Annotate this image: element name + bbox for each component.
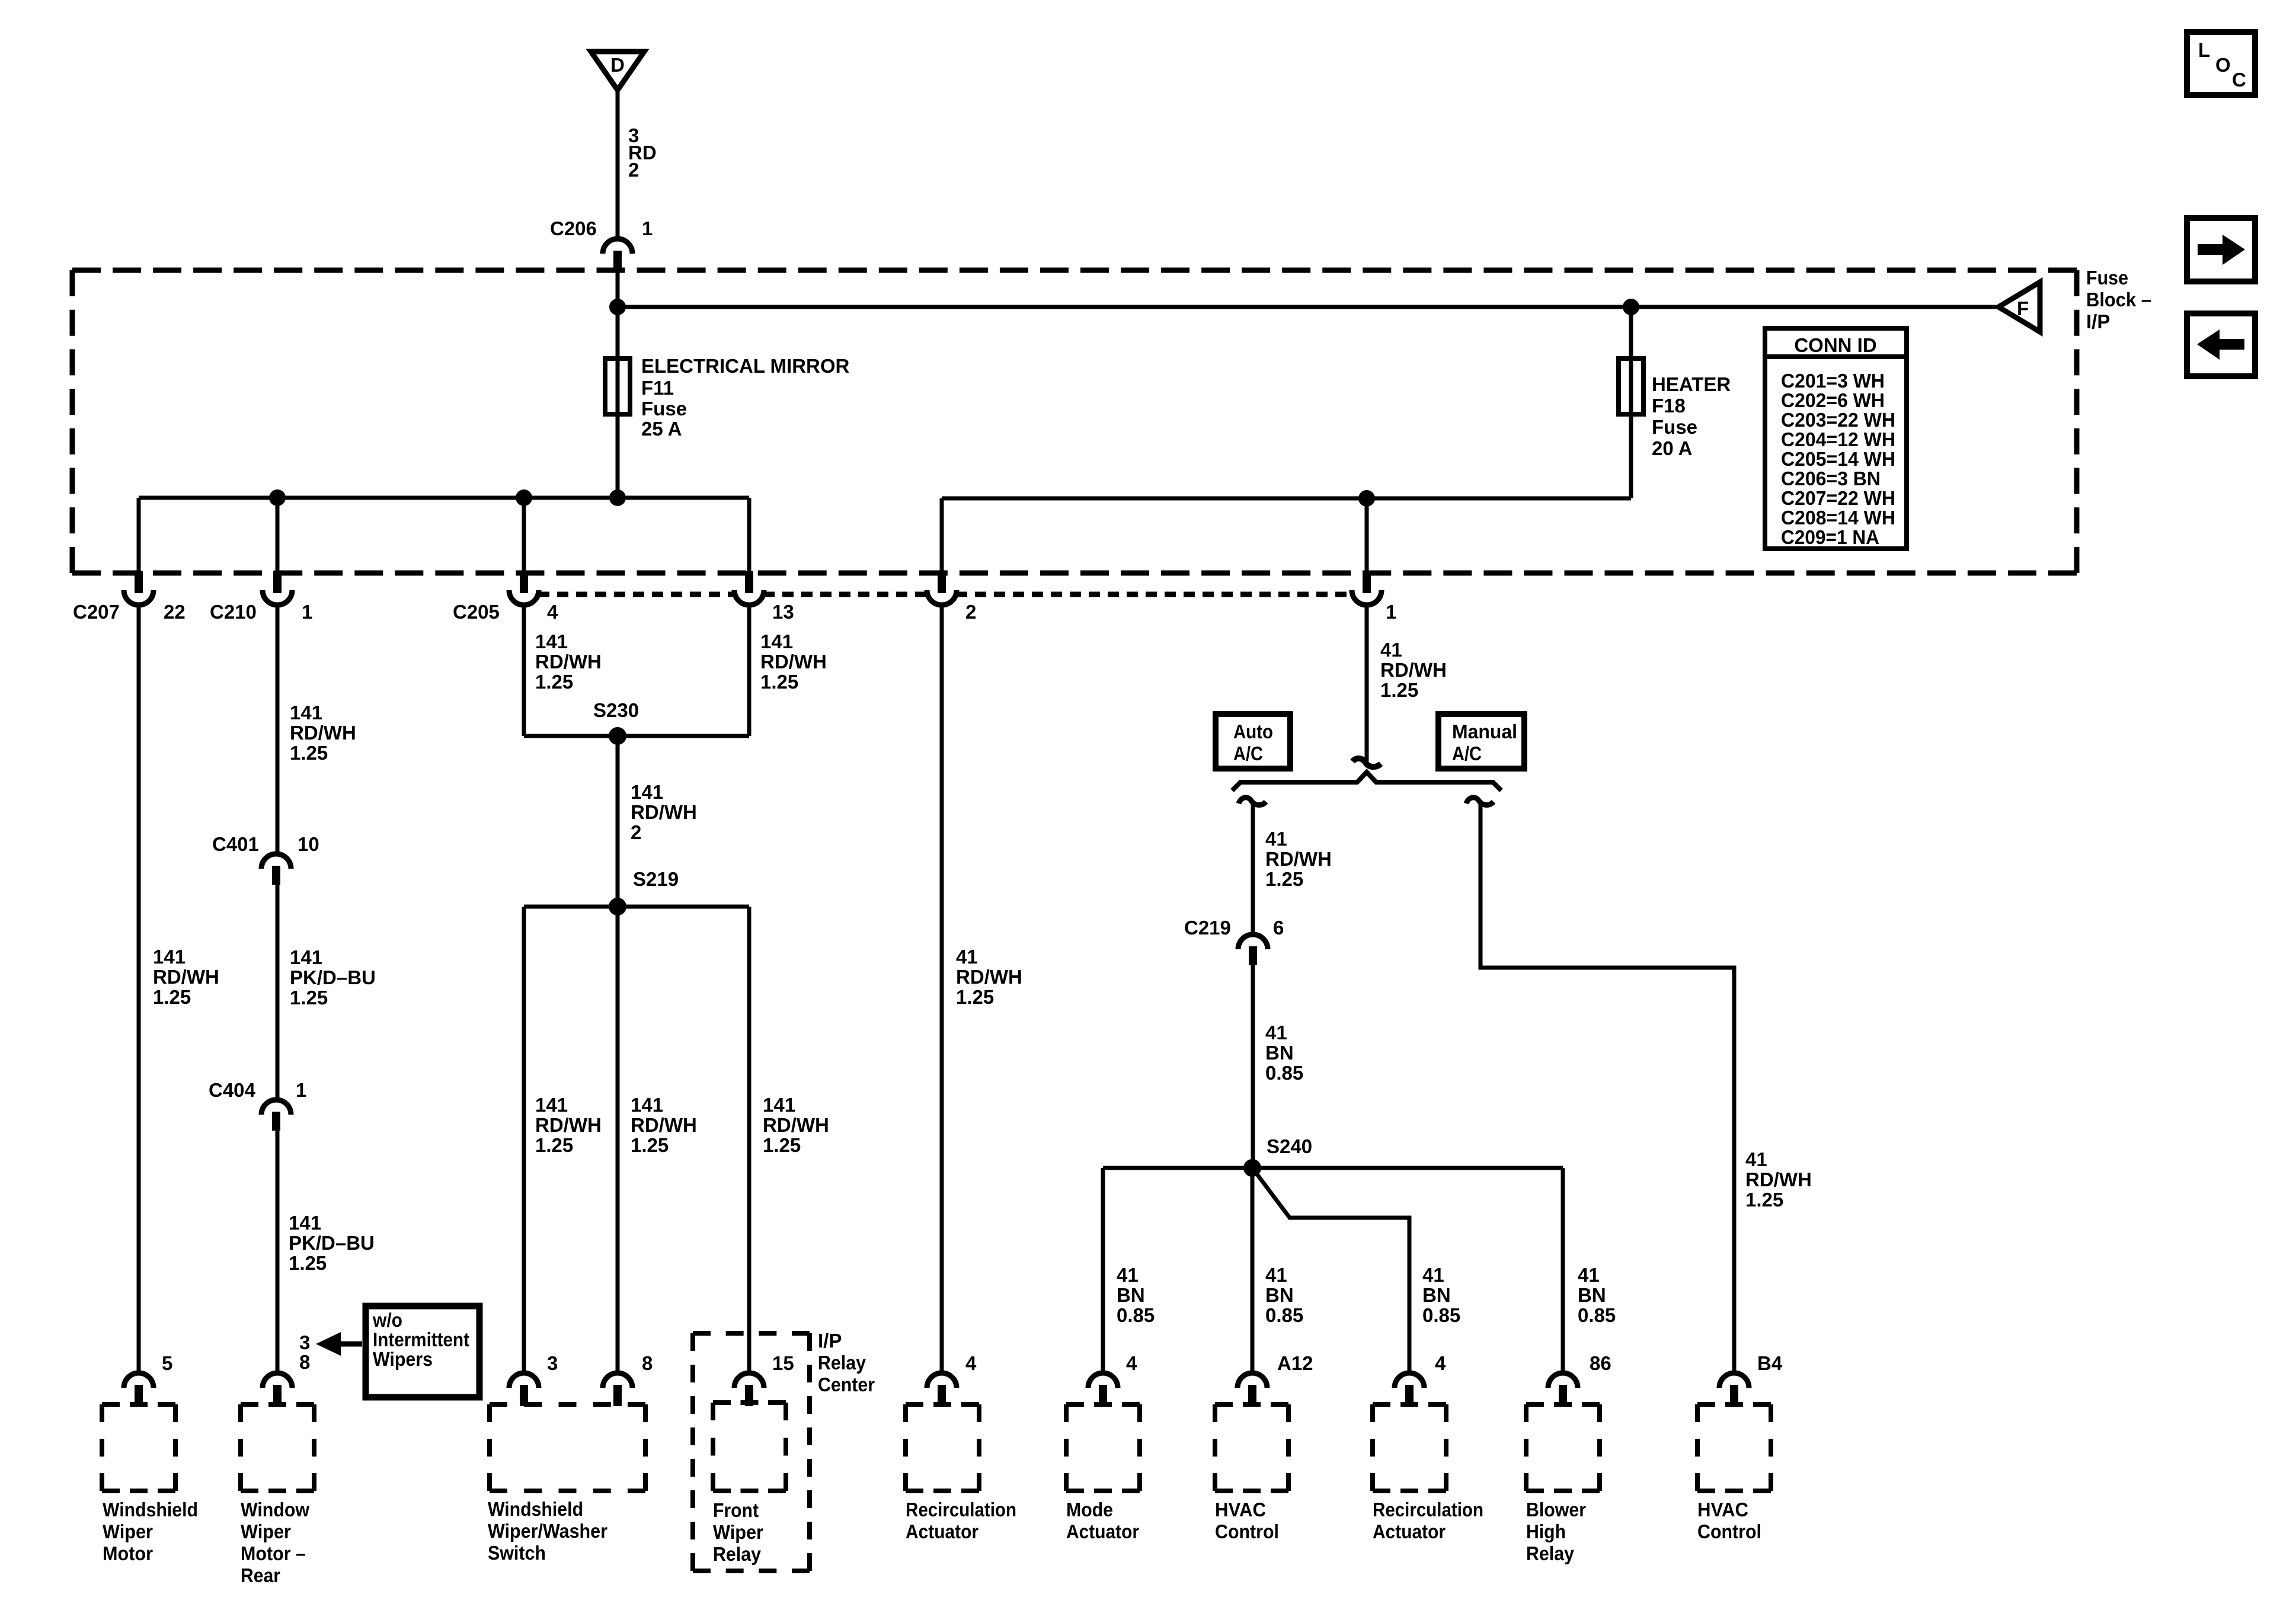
component box front wiper relay [713,1403,786,1491]
svg-text:w/o: w/o [372,1309,402,1331]
svg-text:Block –: Block – [2086,289,2151,311]
component box HVAC control A12 [1215,1404,1288,1491]
svg-text:RD/WH: RD/WH [763,1114,829,1136]
svg-text:C401: C401 [212,833,259,855]
svg-text:Wiper: Wiper [713,1521,763,1543]
svg-text:I/P: I/P [2086,311,2110,332]
svg-text:41: 41 [1265,1022,1287,1044]
svg-text:1.25: 1.25 [763,1134,801,1156]
svg-text:HVAC: HVAC [1215,1499,1266,1521]
wire: pin 1 down to option split [1365,607,1369,761]
svg-text:4: 4 [1126,1352,1137,1374]
svg-text:C205=14 WH: C205=14 WH [1781,448,1895,470]
svg-text:15: 15 [772,1352,794,1374]
component box window wiper motor rear [241,1404,314,1491]
svg-text:S230: S230 [593,699,639,721]
wire: main bus under F11 [139,496,749,500]
svg-text:Window: Window [241,1499,309,1521]
svg-text:BN: BN [1578,1284,1606,1306]
svg-text:Fuse: Fuse [1652,416,1697,438]
svg-text:C201=3 WH: C201=3 WH [1781,370,1885,392]
dotted option line segment 1 [538,592,735,597]
connector C401 pin 10 [261,854,291,869]
connector C206 pin [613,251,622,271]
svg-text:C203=22 WH: C203=22 WH [1781,409,1895,431]
wire: bus drop C210 [276,498,280,573]
wire: C401 to C404 [276,885,280,1098]
svg-text:C209=1 NA: C209=1 NA [1781,526,1879,548]
wire: S240 bus [1103,1166,1563,1170]
right arrow box [2187,218,2255,281]
svg-text:41: 41 [1578,1264,1600,1286]
wire: S230 bus [524,734,749,738]
node S219 [609,898,626,916]
wire: S219 to front wiper relay pin 15 [747,907,752,1371]
svg-text:RD/WH: RD/WH [1745,1169,1812,1190]
node: junction to pin 1 [1358,490,1375,507]
svg-text:C206: C206 [550,217,597,239]
wire: drop to pin 1 [1365,498,1369,573]
wire: bus drop C205-4 [522,498,526,573]
node: bus junction C205-4 [516,489,532,506]
component box blower high relay [1526,1404,1600,1491]
svg-text:22: 22 [164,601,186,623]
svg-text:8: 8 [642,1352,653,1374]
dotted option line segment 2 [763,592,928,597]
box Auto A/C [1216,714,1290,769]
svg-text:0.85: 0.85 [1578,1304,1616,1326]
component box HVAC control B4 [1697,1404,1771,1491]
svg-text:1: 1 [302,601,312,623]
svg-text:1.25: 1.25 [956,986,994,1008]
svg-text:Wiper/Washer: Wiper/Washer [488,1520,607,1542]
svg-text:C202=6 WH: C202=6 WH [1781,389,1885,411]
power symbol D triangle [591,52,644,90]
connector C210 pin 1 [273,571,282,593]
svg-text:Wiper: Wiper [241,1521,291,1542]
svg-text:141: 141 [535,1094,568,1116]
svg-text:141: 141 [535,630,568,652]
svg-text:2: 2 [631,821,641,843]
box Manual A/C [1438,714,1524,769]
svg-text:8: 8 [299,1351,310,1373]
svg-text:High: High [1526,1521,1566,1542]
svg-text:141: 141 [763,1094,795,1116]
svg-text:141: 141 [290,702,322,724]
svg-text:41: 41 [956,946,978,968]
connector C206 arc [603,239,632,254]
svg-text:F11: F11 [641,377,674,399]
svg-text:1.25: 1.25 [535,671,573,693]
svg-text:F: F [2017,297,2029,319]
svg-text:2: 2 [965,601,976,623]
bottom connector pin 8 (window wiper motor) [263,1373,292,1388]
component box recirculation actuator 2 [1373,1404,1446,1491]
svg-text:0.85: 0.85 [1422,1304,1460,1326]
svg-text:Relay: Relay [713,1543,762,1565]
svg-text:20 A: 20 A [1652,437,1692,459]
component box I/P relay center [693,1333,810,1571]
LOC box [2187,32,2255,95]
svg-text:RD/WH: RD/WH [535,651,602,673]
svg-text:Manual: Manual [1452,721,1517,742]
wire: manual branch to HVAC control B4 [1480,804,1734,1371]
wire: C205 pin 13 to S230 [747,607,752,736]
svg-text:0.85: 0.85 [1117,1304,1155,1326]
bottom connector pin A12 [1237,1373,1267,1388]
option split bracket [1232,772,1501,790]
svg-text:Rear: Rear [241,1564,280,1586]
svg-text:C206=3 BN: C206=3 BN [1781,468,1881,489]
bottom connector pin 5 [124,1373,154,1388]
svg-text:Actuator: Actuator [906,1521,978,1542]
svg-text:Windshield: Windshield [103,1499,198,1521]
svg-text:1.25: 1.25 [1745,1189,1783,1211]
svg-text:41: 41 [1265,1264,1287,1286]
fuse block border bottom [72,571,2077,576]
wire: C206 to bus junction [616,271,620,498]
svg-text:1: 1 [296,1079,306,1101]
svg-text:RD/WH: RD/WH [631,801,697,823]
bottom connector pin 4 (recirculation 2) [1395,1373,1424,1388]
svg-text:A12: A12 [1277,1352,1313,1374]
svg-text:Actuator: Actuator [1066,1521,1139,1542]
F triangle (fuse block feed) [1998,282,2040,332]
svg-text:Mode: Mode [1066,1499,1113,1521]
svg-text:41: 41 [1380,639,1402,661]
component box recirculation actuator [906,1404,979,1491]
svg-text:Intermittent: Intermittent [373,1329,469,1350]
svg-text:C210: C210 [210,601,257,623]
svg-text:3: 3 [299,1331,310,1353]
svg-text:Windshield: Windshield [488,1498,583,1520]
bottom connector pin 86 [1548,1373,1578,1388]
svg-text:4: 4 [547,601,558,623]
svg-text:Motor –: Motor – [241,1542,306,1564]
svg-text:Control: Control [1697,1521,1761,1542]
connector C205 pin 4 [520,571,528,593]
svg-text:D: D [610,54,625,76]
svg-text:141: 141 [153,946,186,968]
svg-text:4: 4 [1435,1352,1446,1374]
svg-text:C207=22 WH: C207=22 WH [1781,487,1895,509]
svg-text:1.25: 1.25 [631,1134,669,1156]
svg-text:C: C [2232,69,2246,91]
fuse block border top [72,268,2077,273]
bottom connector pin 4 (recirculation) [927,1373,957,1388]
svg-text:141: 141 [631,781,663,803]
wire: D triangle to C206 [616,90,620,237]
w/o intermittent wipers box [366,1306,479,1397]
svg-text:25 A: 25 A [641,418,682,440]
svg-text:RD/WH: RD/WH [153,966,219,988]
wire: S230 to S219 [616,736,620,907]
svg-text:BN: BN [1117,1284,1145,1306]
svg-text:A/C: A/C [1233,742,1263,764]
svg-text:1.25: 1.25 [760,671,798,693]
svg-text:0.85: 0.85 [1265,1304,1303,1326]
svg-text:Auto: Auto [1233,721,1273,742]
svg-text:RD/WH: RD/WH [290,722,356,744]
fuse block border right [2074,270,2080,573]
option break curl at wire end [1352,758,1381,767]
component box windshield wiper motor [102,1404,175,1491]
svg-text:HEATER: HEATER [1652,373,1731,395]
w/o wipers arrow [340,1342,362,1347]
svg-text:1: 1 [642,217,653,239]
svg-text:1.25: 1.25 [535,1134,573,1156]
svg-text:HVAC: HVAC [1697,1499,1748,1521]
svg-text:Actuator: Actuator [1373,1521,1446,1542]
connector pin 1 [1363,571,1371,593]
node S240 [1243,1159,1261,1177]
connector C219 pin 6 [1238,934,1268,949]
svg-text:41: 41 [1745,1148,1767,1170]
svg-text:141: 141 [631,1094,663,1116]
svg-text:RD/WH: RD/WH [1265,848,1332,870]
svg-text:RD/WH: RD/WH [631,1114,697,1136]
svg-text:Relay: Relay [1526,1542,1575,1564]
svg-text:B4: B4 [1757,1352,1783,1374]
svg-text:A/C: A/C [1452,742,1482,764]
svg-text:6: 6 [1273,917,1284,939]
manual branch curl [1466,798,1494,805]
wire: S240 to HVAC control A12 [1251,1168,1255,1371]
svg-text:Blower: Blower [1526,1499,1586,1521]
svg-text:141: 141 [760,630,793,652]
wire: C205 pin 4 to S230 [522,607,526,736]
svg-text:BN: BN [1265,1042,1294,1064]
svg-text:RD/WH: RD/WH [1380,659,1447,681]
wire: bus drop C207 [137,498,141,573]
wire: heater fuse drop [1629,307,1633,498]
svg-text:C204=12 WH: C204=12 WH [1781,428,1895,450]
wire: S240 to mode actuator [1101,1168,1105,1371]
component box windshield wiper washer switch [490,1404,645,1491]
wire: pin 2 to recirculation actuator [940,607,944,1371]
bottom connector pin 3 [509,1373,539,1388]
svg-text:Recirculation: Recirculation [1373,1499,1483,1521]
svg-text:0.85: 0.85 [1265,1062,1303,1084]
svg-text:Wiper: Wiper [103,1521,153,1542]
svg-text:1.25: 1.25 [290,742,328,764]
wire: bus drop C205-13 [747,498,752,573]
svg-text:1.25: 1.25 [289,1252,327,1274]
node S230 [609,727,626,745]
svg-text:1.25: 1.25 [1380,679,1418,701]
svg-text:Control: Control [1215,1521,1279,1542]
wire: C207 pin 22 to windshield wiper motor [137,607,141,1371]
wire: feed to F triangle [618,305,1996,309]
wire: drop to pin 2 [940,498,944,573]
svg-text:C404: C404 [209,1079,256,1101]
svg-text:Recirculation: Recirculation [906,1499,1016,1521]
wire: S219 to wiper switch pin 3 [522,907,526,1371]
svg-text:I/P: I/P [818,1330,842,1352]
svg-text:C219: C219 [1184,917,1231,939]
svg-text:Wipers: Wipers [373,1348,433,1370]
svg-text:BN: BN [1422,1284,1451,1306]
svg-text:ELECTRICAL MIRROR: ELECTRICAL MIRROR [641,355,850,377]
svg-text:L: L [2198,39,2210,61]
svg-text:5: 5 [162,1352,172,1374]
svg-text:Switch: Switch [488,1542,546,1564]
node: bus junction C210 [269,489,286,506]
svg-text:C208=14 WH: C208=14 WH [1781,507,1895,529]
svg-text:41: 41 [1117,1264,1139,1286]
svg-text:Center: Center [818,1374,875,1395]
svg-text:O: O [2215,54,2231,76]
connector pin 2 [938,571,946,593]
svg-text:141: 141 [290,946,322,968]
dotted option line segment 3 [956,592,1352,597]
svg-text:41: 41 [1422,1264,1444,1286]
svg-text:F18: F18 [1652,395,1686,417]
wire: S219 to wiper switch pin 8 [616,907,620,1371]
bottom connector pin 4 (mode actuator) [1088,1373,1118,1388]
svg-text:C205: C205 [453,601,500,623]
bottom connector pin 8 (wiper switch) [603,1373,632,1388]
node: heater tap junction [1623,299,1639,315]
bottom connector pin B4 [1719,1373,1749,1388]
connector C207 pin 22 [135,571,143,593]
svg-text:86: 86 [1590,1352,1611,1374]
svg-text:RD/WH: RD/WH [760,651,827,673]
fuse F18 [1619,359,1643,414]
svg-text:1.25: 1.25 [290,987,328,1009]
component box mode actuator [1066,1404,1140,1491]
svg-text:2: 2 [628,159,639,181]
connector C404 pin 1 [261,1100,291,1115]
svg-text:C207: C207 [73,601,120,623]
svg-text:Fuse: Fuse [2086,267,2128,289]
wire: S240 diagonal to recirculation actuator [1252,1168,1409,1371]
wire: C404 to window wiper motor rear [276,1131,280,1371]
wire: heater bottom run [942,497,1631,501]
svg-text:S219: S219 [633,868,679,890]
svg-text:RD/WH: RD/WH [956,966,1022,988]
svg-text:10: 10 [298,833,319,855]
svg-text:3: 3 [547,1352,558,1374]
wire: C210 pin 1 to C401 [276,607,280,852]
fuse F11 [605,359,630,414]
auto branch curl [1239,798,1266,805]
bottom connector pin 15 [734,1373,764,1388]
node: bus junction F11 [609,489,626,506]
svg-text:BN: BN [1265,1284,1294,1306]
svg-text:PK/D–BU: PK/D–BU [290,966,376,988]
svg-text:Relay: Relay [818,1352,866,1374]
wire: S240 to blower high relay [1561,1168,1565,1371]
svg-text:4: 4 [965,1352,977,1374]
left arrow box [2187,313,2255,376]
svg-text:1.25: 1.25 [1265,868,1303,890]
connector C205 pin 13 [745,571,753,593]
wire: S219 bus [524,905,749,909]
svg-text:S240: S240 [1267,1135,1312,1157]
svg-text:Front: Front [713,1499,759,1521]
svg-text:1.25: 1.25 [153,986,191,1008]
wire: auto branch to C219 [1251,804,1255,932]
svg-text:41: 41 [1265,828,1287,850]
fuse block border left [70,270,75,573]
wire: C219 to S240 [1251,965,1255,1168]
svg-text:Fuse: Fuse [641,398,687,420]
svg-text:Motor: Motor [103,1542,153,1564]
CONN ID table [1765,328,1907,549]
node: feed junction [609,299,626,315]
svg-text:CONN ID: CONN ID [1794,334,1876,356]
svg-text:1: 1 [1386,601,1396,623]
svg-text:RD/WH: RD/WH [535,1114,602,1136]
svg-text:141: 141 [289,1212,321,1234]
svg-text:PK/D–BU: PK/D–BU [289,1232,375,1254]
svg-text:13: 13 [772,601,794,623]
